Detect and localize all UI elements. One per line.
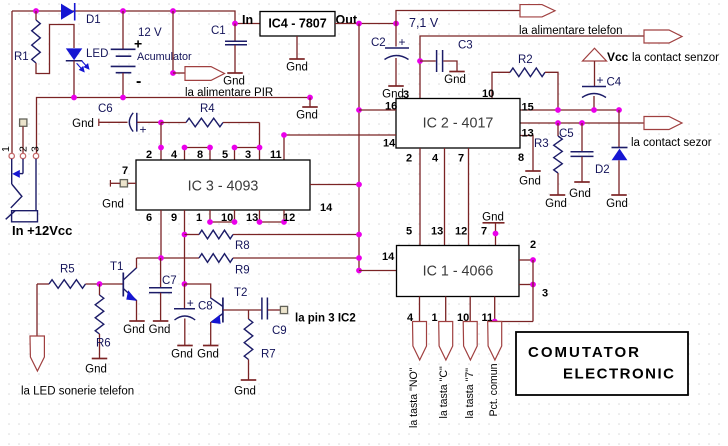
transistor T1 [122,273,124,297]
junction [71,95,77,101]
wire pin10 [234,210,236,222]
svg-text:Gnd: Gnd [85,364,107,376]
node gnd port [170,70,176,76]
node pin11/pins2-3 [492,319,498,325]
svg-text:IC 2 - 4017: IC 2 - 4017 [423,116,494,132]
node R6/base [97,281,103,287]
node rail top [356,21,362,27]
terminal square C9 [280,306,287,313]
capacitor C5 [581,123,583,151]
ground [177,345,193,347]
wire to jack contact 2 [22,127,24,154]
svg-text:Gnd: Gnd [519,176,541,188]
svg-text:8: 8 [197,149,203,161]
svg-text:In +12Vcc: In +12Vcc [12,223,72,238]
svg-text:IC4 - 7807: IC4 - 7807 [268,17,326,31]
node pin16 [356,107,362,113]
capacitor C3 [420,60,436,62]
junction [207,145,213,151]
svg-text:13: 13 [431,226,443,238]
diode D2 [618,110,620,147]
svg-text:C5: C5 [559,128,574,140]
svg-text:C3: C3 [458,40,473,52]
node C8/T2 [182,281,188,287]
tie pins 5-3 [235,147,260,149]
junction [257,145,263,151]
wire 7.1V out [335,23,396,25]
svg-text:la alimentare PIR: la alimentare PIR [185,87,273,99]
port Gnd arrow [185,67,225,81]
capacitor C9 [261,298,263,320]
battery 12V Acumulator [122,11,124,49]
wire pin8 [209,148,211,161]
node rail/R8 [356,232,362,238]
ground [129,320,145,322]
title box COMUTATOR ELECTRONIC [516,332,688,395]
junction [120,95,126,101]
ground rail wire [37,98,311,154]
ground [153,320,169,322]
wire IC3 pin11 to IC2 pin14 [284,134,396,136]
port la tasta &quot;NO&quot; [413,322,427,361]
svg-text:la tasta "NO": la tasta "NO" [408,367,420,428]
wire 7.1V vertical rail [358,24,360,271]
svg-text:Gnd: Gnd [72,118,94,130]
resistor R9 [137,257,200,259]
jack contact 3 [33,153,38,158]
ground [289,58,305,60]
svg-text:C1: C1 [211,25,226,37]
node PIR gnd [307,95,313,101]
capacitor C6 [98,119,100,126]
svg-text:7: 7 [122,165,128,177]
svg-text:Gnd: Gnd [569,188,591,200]
svg-text:3: 3 [245,149,251,161]
regulator IC4 - 7807 [260,12,335,37]
svg-text:COMUTATOR: COMUTATOR [528,344,641,361]
ground [449,71,465,73]
wire R1 bottom to LED anode [36,25,74,74]
ground [241,379,257,381]
ground [525,170,541,172]
svg-text:R3: R3 [534,138,549,150]
svg-text:10: 10 [221,212,233,224]
wire to 7.1V port [396,11,520,24]
node rail/R9 [356,255,362,261]
svg-text:12: 12 [455,226,467,238]
wire pin4 [419,297,421,322]
ground [611,194,627,196]
svg-text:la tasta "C": la tasta "C" [438,366,450,419]
port la tasta &quot;C&quot; [439,322,453,361]
svg-text:C7: C7 [162,275,177,287]
svg-text:R8: R8 [235,240,250,252]
wire IC2 p4 - IC1 p13 [444,148,446,246]
svg-text:la contact senzor: la contact senzor [632,52,719,64]
svg-text:Gnd: Gnd [102,199,124,211]
junction [207,219,213,225]
wire pin11 [494,297,496,322]
wire pin2 [160,123,162,161]
svg-text:3: 3 [542,288,548,300]
junction [232,219,238,225]
svg-text:Gnd: Gnd [234,386,256,398]
svg-text:la contact sezor: la contact sezor [631,137,712,149]
wire pin8 to gnd [520,136,533,172]
junction C4 [591,107,597,113]
svg-text:13: 13 [522,128,534,140]
svg-text:14: 14 [383,138,396,150]
svg-text:Gnd: Gnd [123,324,145,336]
wire pin10 [469,297,471,322]
svg-text:+: + [134,36,142,52]
capacitor C8 [184,284,186,309]
svg-text:+: + [399,35,406,49]
wire pin2 [519,259,533,261]
svg-text:C8: C8 [198,301,213,313]
svg-text:-: - [136,73,141,90]
resistor R1 [35,11,37,20]
wire pin7 gnd [495,223,497,246]
svg-text:4: 4 [432,153,439,165]
svg-text:4: 4 [171,149,178,161]
nand IC3 - 4093 [136,160,310,210]
ground [92,358,108,360]
svg-text:C2: C2 [371,37,386,49]
junction [182,145,188,151]
node C6/R4 [158,120,164,126]
svg-text:Vcc: Vcc [607,50,629,64]
svg-text:Gnd: Gnd [444,74,466,86]
jack J1 switch body [11,159,13,184]
wire pin15 node [520,109,619,111]
junction [170,8,176,14]
svg-text:Pct. comun: Pct. comun [488,363,500,416]
svg-text:R6: R6 [96,338,111,350]
svg-text:7: 7 [458,153,464,165]
wire IC2 p7 - IC1 p12 [468,148,470,246]
svg-text:la tasta "7": la tasta "7" [464,368,476,419]
wire pin11 [283,135,285,160]
diode D1 [61,4,74,20]
wire pin11 junction [495,321,533,323]
node rail/IC1 pin14 [356,268,362,274]
wire pin13 [259,210,261,222]
terminal square pin7 [120,180,127,187]
wire left to jack contact 1 [11,11,13,153]
port la tasta &quot;7&quot; [463,322,477,361]
svg-text:Gnd: Gnd [171,349,193,361]
resistor R5 [37,283,49,285]
svg-text:la pin 3 IC2: la pin 3 IC2 [295,313,356,325]
gnd stub [309,98,311,108]
junction R2 [555,107,561,113]
svg-text:Gnd: Gnd [149,324,171,336]
svg-text:T2: T2 [234,287,247,299]
junction R3 [555,120,561,126]
svg-text:C6: C6 [98,103,113,115]
svg-text:Gnd: Gnd [606,198,628,210]
capacitor C2 [395,24,397,47]
svg-text:D2: D2 [595,164,610,176]
svg-text:16: 16 [385,101,397,113]
junction [232,145,238,151]
svg-text:ELECTRONIC: ELECTRONIC [563,366,676,383]
junction [158,145,164,151]
resistor R7 [248,310,250,319]
svg-text:R1: R1 [14,51,29,63]
power Vcc symbol [583,48,607,61]
svg-text:+: + [140,123,147,137]
svg-text:Out: Out [336,13,358,27]
jack contact 1 [9,153,14,158]
wire pin12 [283,210,285,222]
svg-text:7,1 V: 7,1 V [409,16,439,30]
svg-text:13: 13 [246,212,258,224]
wire collector [136,258,138,268]
wire pin3 [519,284,533,286]
node C2 [393,21,399,27]
svg-text:C4: C4 [607,77,622,89]
port la alimentare telefon [644,30,682,43]
wire rail to pin16 [359,109,396,111]
wire IC2 p2 - IC1 p5 [419,148,421,246]
svg-text:LED: LED [86,48,108,60]
svg-text:In: In [242,13,253,27]
port 7.1V arrow [520,5,555,17]
ground [227,72,243,74]
transistor T2 [185,284,211,298]
svg-text:2: 2 [530,239,536,251]
svg-text:la LED sonerie telefon: la LED sonerie telefon [21,386,134,398]
IC4 gnd lead [296,36,298,59]
wire pin4 [184,148,186,161]
svg-text:R4: R4 [200,103,215,115]
svg-text:R7: R7 [261,349,276,361]
switch IC1 - 4066 [397,246,520,297]
wire R5 to port [36,284,38,336]
capacitor C7 [160,258,162,287]
wire +12V top rail [12,11,260,24]
node R8/pin9 [182,232,188,238]
resistor R3 [557,123,559,136]
wire pin6 [160,210,162,258]
svg-text:3: 3 [29,146,41,152]
capacitor C1 [234,24,236,42]
resistor R4 [186,118,223,127]
resistor R2 [492,72,510,98]
node pin7 [493,231,499,237]
wire rail to IC1 pin14 [359,270,397,272]
node pin2 [530,257,536,263]
node pin3 [530,282,536,288]
tie pins 13-12 [260,221,285,223]
wire T2 base to C9 [223,309,261,311]
svg-text:15: 15 [522,102,534,114]
junction [257,219,263,225]
svg-text:Gnd: Gnd [482,212,504,224]
svg-text:IC 3 - 4093: IC 3 - 4093 [188,179,259,195]
wire pins 2-3 to pin11 [532,260,534,322]
svg-text:14: 14 [382,251,395,263]
node pin6/collector [158,255,164,261]
svg-text:2: 2 [406,153,412,165]
ground [302,106,318,108]
svg-text:7: 7 [481,226,487,238]
svg-text:Gnd: Gnd [296,110,318,122]
wire pin1 [209,210,211,222]
svg-text:T1: T1 [110,261,123,273]
svg-text:1: 1 [0,146,12,152]
svg-text:5: 5 [406,226,412,238]
wire T2 emitter gnd [210,322,212,346]
svg-text:14: 14 [320,202,333,214]
wire pin14 to rail [310,184,359,186]
node pin11 [281,132,287,138]
tie pins 1-10 [210,221,235,223]
gnd bar pin7 [483,222,505,224]
junction [120,8,126,14]
node C3 [417,58,423,64]
svg-text:+: + [597,73,604,87]
node C1/In [232,21,238,27]
svg-text:5: 5 [222,149,228,161]
svg-text:Gnd: Gnd [286,62,308,74]
jack contact 2 [20,153,25,158]
svg-text:2: 2 [17,146,29,152]
op IC2 - 4017 [396,99,520,149]
ground [550,194,566,196]
port la LED sonerie [30,336,44,371]
wire pin1 [445,297,447,322]
resistor R6 [99,284,101,295]
svg-text:2: 2 [146,149,152,161]
jack switch arrow [12,170,20,178]
wire emitter to gnd [136,301,138,322]
svg-text:1: 1 [196,212,202,224]
capacitor C4 [594,61,596,86]
svg-text:1: 1 [432,312,438,324]
junction C5 [579,120,585,126]
junction [281,219,287,225]
svg-text:R2: R2 [518,54,533,66]
port la contact sezor [644,117,682,130]
svg-text:11: 11 [270,149,282,161]
svg-text:8: 8 [518,152,524,164]
ground [203,345,219,347]
svg-text:D1: D1 [86,14,101,26]
tie pins 4-8 [185,147,211,149]
wire battery- branch [172,11,174,73]
ground [388,85,404,87]
wire pin9 [184,210,186,284]
wire pin3 to telefon port [420,36,644,99]
svg-text:Acumulator: Acumulator [137,51,192,63]
resistor R8 [185,234,200,236]
LED [66,48,83,60]
svg-text:Gnd: Gnd [197,349,219,361]
svg-text:6: 6 [146,212,152,224]
node rail/pin14 [356,182,362,188]
svg-text:Gnd: Gnd [223,76,245,88]
wire LED cathode to gnd rail [73,61,75,98]
wire [173,72,185,74]
node battery+/R1 [33,8,39,14]
ground [574,181,590,183]
wire pin13 node [520,122,644,124]
terminal square jack pin2 [20,119,27,126]
wire pin3 [259,123,261,161]
svg-text:la alimentare telefon: la alimentare telefon [519,25,623,37]
svg-text:IC 1 - 4066: IC 1 - 4066 [423,264,494,280]
svg-text:+: + [187,296,194,310]
svg-text:C9: C9 [272,325,287,337]
wire pin5 [234,148,236,161]
svg-text:R9: R9 [235,265,250,277]
svg-text:9: 9 [171,212,177,224]
svg-text:Gnd: Gnd [545,198,567,210]
svg-text:R5: R5 [60,264,75,276]
svg-text:12: 12 [283,212,295,224]
wire pin7 [128,182,137,184]
port Pct. comun [488,322,502,361]
junction D2 [616,107,622,113]
